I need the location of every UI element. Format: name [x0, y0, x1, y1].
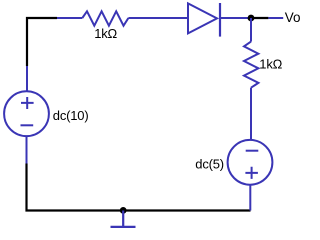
wire V1 top lead	[26, 66, 28, 91]
V1 minus sign	[21, 124, 34, 126]
resistor R2	[244, 42, 258, 88]
diode D1 cathode bar	[219, 3, 221, 37]
wire V2 bottom lead	[249, 185, 251, 211]
V2 plus sign	[245, 167, 258, 179]
V2 minus sign	[246, 150, 259, 152]
wire D1-node lead	[220, 17, 248, 19]
svg-text:1kΩ: 1kΩ	[94, 26, 117, 41]
voltage source V2 dc(5)	[228, 140, 273, 185]
V1 plus sign	[21, 97, 34, 109]
wire node-R2 lead	[250, 18, 252, 42]
svg-text:dc(10): dc(10)	[53, 108, 89, 123]
node Vo junction	[248, 15, 255, 22]
wire V1 bottom lead	[26, 136, 28, 164]
resistor R1	[82, 11, 128, 25]
wire node black stub	[251, 17, 268, 19]
wire R2-V2 lead	[250, 88, 252, 140]
voltage source V1 dc(10)	[4, 91, 49, 136]
wire R1-D1 lead	[128, 17, 187, 19]
svg-text:Vo: Vo	[285, 10, 301, 25]
wire Vo pin	[268, 17, 283, 19]
svg-text:1kΩ: 1kΩ	[259, 57, 282, 72]
wire bottom black run	[27, 164, 251, 211]
diode D1 triangle	[188, 3, 217, 33]
ground	[111, 211, 136, 227]
svg-text:dc(5): dc(5)	[195, 156, 224, 171]
node ground junction	[120, 207, 127, 214]
wire R1 left lead	[57, 17, 82, 19]
wire top-left black L	[27, 18, 57, 66]
